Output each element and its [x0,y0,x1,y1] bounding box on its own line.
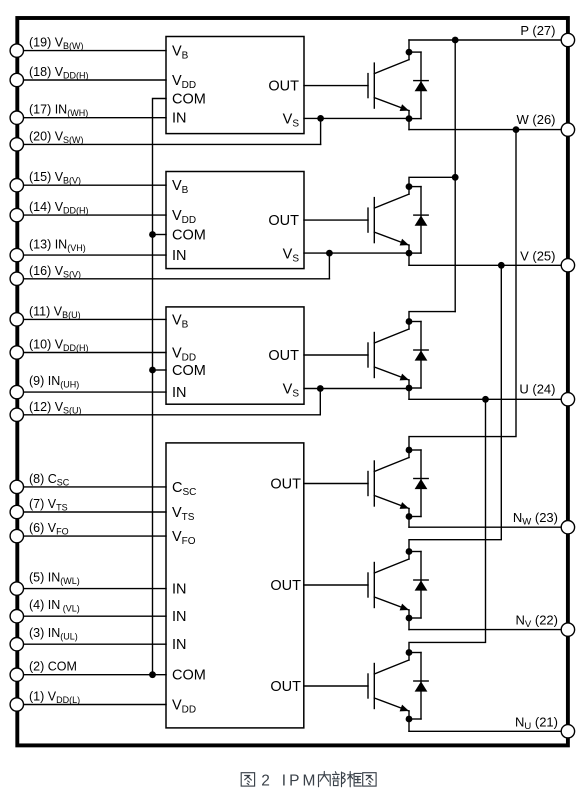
junction on COM bus at U3 [149,367,156,374]
svg-text:(14) VDD(H): (14) VDD(H) [29,200,89,216]
wire pin11 to U3 VB [23,318,166,320]
transistor Q3 (U high-side IGBT with diode) [368,318,428,391]
pin 11 circle [10,313,23,326]
svg-text:P (27): P (27) [520,23,555,38]
pin 19 circle [10,44,23,57]
svg-text:(20) VS(W): (20) VS(W) [29,129,84,145]
svg-text:IN: IN [172,582,187,598]
pin NW23 circle [561,521,574,534]
wire pin19 to U1 VB [23,50,166,52]
V line [409,264,561,266]
wire pin18 to U1 VDD [23,79,166,81]
junction on COM bus at U2 [149,231,156,238]
pin 10 circle [10,346,23,359]
pin 17 circle [10,111,23,124]
NU line [409,730,561,732]
U feed to Q6 collector [409,399,486,652]
driver block U2 (V high-side) [166,172,304,269]
svg-text:COM: COM [172,363,206,379]
svg-text:IN: IN [172,248,187,264]
svg-text:OUT: OUT [268,79,299,95]
svg-text:(5) IN(WL): (5) IN(WL) [29,570,80,586]
wire Q3 emitter to U line [408,389,410,400]
P rail vertical [454,40,456,312]
svg-text:(7) VTS: (7) VTS [29,497,68,513]
svg-text:(18) VDD(H): (18) VDD(H) [29,65,89,81]
svg-text:OUT: OUT [270,578,301,594]
wire U3 VS to Q3 emitter [304,388,409,390]
pin W26 circle [561,123,574,136]
pin 20 circle [10,138,23,151]
caption: 图 2 IPM内部框图 [241,772,376,787]
svg-text:IN: IN [172,111,187,127]
wire P rail to Q2 collector [409,177,455,186]
node VS(V) [326,250,333,257]
wire pin14 to U2 VDD [23,214,166,216]
wire pin20 VS(W) [23,143,321,145]
transistor Q1 (W high-side IGBT with diode) [368,49,428,122]
svg-text:OUT: OUT [268,213,299,229]
pin 14 circle [10,208,23,221]
gate wire U3 OUT to Q3 [304,354,368,356]
driver block U4 (low-side) [166,443,304,728]
svg-text:NV (22): NV (22) [516,613,558,631]
svg-text:COM: COM [172,92,206,108]
caption char tu (figure) [241,773,254,786]
caption char bu [333,772,346,787]
node P rail at Q2 takeoff [452,174,459,181]
V feed to Q5 collector [409,265,501,551]
pin NV22 circle [561,623,574,636]
pin 13 circle [10,248,23,261]
svg-text:(4) IN (VL): (4) IN (VL) [29,598,80,614]
svg-text:IN: IN [172,637,187,653]
transistor Q5 (NV low-side IGBT with diode) [368,548,428,621]
transistor Q4 (NW low-side IGBT with diode) [368,447,428,520]
pin 8 circle [10,480,23,493]
wire pin15 to U2 VB [23,184,166,186]
pin 15 circle [10,179,23,192]
wire pin5 to U4 IN [23,588,166,590]
svg-text:(6) VFO: (6) VFO [29,521,69,537]
svg-text:(1) VDD(L): (1) VDD(L) [29,690,80,706]
NW line [409,526,561,528]
wire pin17 to U1 IN [23,117,166,119]
wire pin10 to U3 VDD [23,352,166,354]
pin 4 circle [10,610,23,623]
gate wire U4 OUT to Q4 [304,483,368,485]
pin 9 circle [10,385,23,398]
VS(W) branch from U1 VS node [320,118,322,144]
svg-text:(8) CSC: (8) CSC [29,472,70,488]
wire pin1 to U4 VDD [23,704,166,706]
node on V line [498,262,505,269]
svg-text:2: 2 [261,772,270,789]
pin 7 circle [10,505,23,518]
svg-text:IN: IN [172,609,187,625]
NV line [409,629,561,631]
wire Q1 collector to P line [408,40,410,52]
svg-text:OUT: OUT [270,477,301,493]
pin 16 circle [10,272,23,285]
pin U24 circle [561,393,574,406]
pin NU21 circle [561,725,574,738]
caption char kuang [347,772,361,787]
node on W line [513,126,520,133]
svg-text:NU (21): NU (21) [515,714,558,732]
wire pin12 VS(U) [23,414,321,416]
pin 6 circle [10,529,23,542]
wire pin16 VS(V) [23,278,330,280]
P line [409,39,561,41]
wire pin3 to U4 IN [23,643,166,645]
svg-text:(13) IN(VH): (13) IN(VH) [29,237,86,253]
VS(U) branch from U3 VS node [319,389,321,415]
svg-text:W (26): W (26) [517,112,556,127]
svg-text:OUT: OUT [268,348,299,364]
junction on COM bus at U4/pin2 [149,671,156,678]
W feed to Q4 collector [409,130,516,450]
svg-text:(19) VB(W): (19) VB(W) [29,36,84,52]
wire U1 VS to Q1 emitter [304,117,409,119]
caption char nei [319,772,331,787]
wire Q1 emitter to W line [408,119,410,130]
svg-text:OUT: OUT [270,679,301,695]
transistor Q6 (NU low-side IGBT with diode) [368,649,428,722]
U line [409,398,561,400]
wire Q5 emitter to NV line [408,618,410,630]
gate wire U2 OUT to Q2 [304,219,368,221]
pin 12 circle [10,408,23,421]
pin 3 circle [10,638,23,651]
wire pin8 to U4 CSC [23,486,166,488]
svg-text:COM: COM [172,668,206,684]
caption char tu (figure) [363,773,376,786]
svg-text:(15) VB(V): (15) VB(V) [29,170,81,186]
COM bus vertical wire [153,99,167,675]
driver block U3 (U high-side) [166,307,304,404]
node on P line [452,37,459,44]
svg-text:NW (23): NW (23) [513,510,558,528]
svg-text:(16) VS(V): (16) VS(V) [29,264,81,280]
wire pin7 to U4 VTS [23,511,166,513]
VS(V) branch from U2 VS node [328,253,330,279]
gate wire U1 OUT to Q1 [304,85,368,87]
wire Q4 emitter to NW line [408,517,410,528]
gate wire U4 OUT to Q5 [304,584,368,586]
COM stub to U3 [153,369,167,371]
pin V25 circle [561,259,574,272]
pin 5 circle [10,582,23,595]
pin P27 circle [561,33,574,46]
wire Q6 emitter to NU line [408,719,410,731]
wire P rail to Q3 collector [409,312,455,322]
COM stub to U2 [153,234,167,236]
svg-text:IPM: IPM [282,772,319,789]
svg-text:IN: IN [172,385,187,401]
wire pin9 to U3 IN [23,391,166,393]
svg-text:U (24): U (24) [519,382,555,397]
node VS(W) [317,115,324,122]
pin 18 circle [10,73,23,86]
svg-text:V (25): V (25) [520,248,555,263]
node on U line [482,396,489,403]
svg-text:(3) IN(UL): (3) IN(UL) [29,626,78,642]
svg-text:(9) IN(UH): (9) IN(UH) [29,374,79,390]
pin 1 circle [10,698,23,711]
driver block U1 (W high-side) [166,37,304,134]
wire Q2 emitter to V line [408,253,410,265]
wire pin2 to U4 COM [23,674,166,676]
node VS(U) [317,385,324,392]
svg-text:(17) IN(WH): (17) IN(WH) [29,103,88,119]
transistor Q2 (V high-side IGBT with diode) [368,183,428,256]
wire pin4 to U4 IN [23,615,166,617]
pin 2 circle [10,668,23,681]
wire U2 VS to Q2 emitter [304,252,409,254]
svg-text:(10) VDD(H): (10) VDD(H) [29,338,89,354]
wire pin6 to U4 VFO [23,535,166,537]
svg-text:COM: COM [172,228,206,244]
wire pin13 to U2 IN [23,254,166,256]
svg-text:(12) VS(U): (12) VS(U) [29,400,82,416]
svg-text:(2) COM: (2) COM [29,660,77,674]
W line [409,129,561,131]
svg-text:(11) VB(U): (11) VB(U) [29,304,81,320]
gate wire U4 OUT to Q6 [304,685,368,687]
